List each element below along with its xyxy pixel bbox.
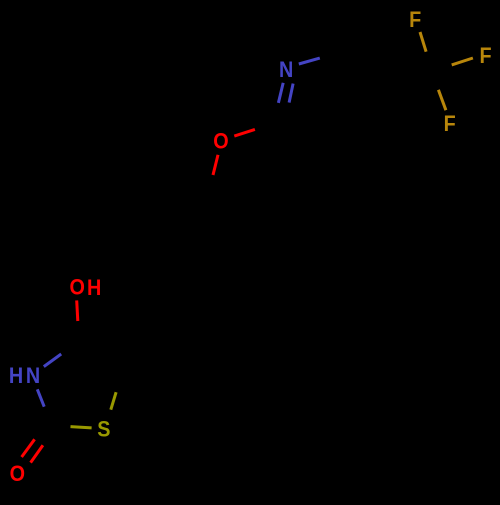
svg-text:F: F bbox=[479, 44, 491, 68]
wire: pyridine N1=C2 double bond inner line (N half, blue) bbox=[289, 84, 293, 103]
svg-text:F: F bbox=[444, 112, 456, 136]
wire: pyridine N1=C2 double bond main line (N half, blue) bbox=[278, 83, 283, 103]
svg-text:O: O bbox=[69, 275, 84, 299]
wire: ring N3-C4 bond (N half, blue) bbox=[44, 354, 61, 367]
svg-text:H: H bbox=[9, 364, 23, 388]
wire: C-F2 bond (F half, gold) bbox=[452, 58, 473, 65]
svg-text:N: N bbox=[279, 58, 293, 82]
wire: ether O to phenyl C1 bond (O half, red) bbox=[213, 155, 218, 175]
svg-text:N: N bbox=[26, 364, 40, 388]
wire: ring N3-C2 bond (N half, blue) bbox=[37, 389, 44, 406]
wire: C-F3 bond (F half, gold) bbox=[438, 90, 446, 110]
wire: hydroxyl O to thiazolidine C4 bond (O half, red) bbox=[77, 300, 78, 321]
wire: carbonyl C2=O double bond line b (O half, red) bbox=[31, 445, 43, 462]
wire: C-F1 bond (F half, gold) bbox=[420, 32, 426, 52]
svg-text:O: O bbox=[213, 130, 228, 154]
svg-text:O: O bbox=[10, 462, 25, 486]
wire: ring S1-C5 bond (S half, olive) bbox=[111, 392, 116, 410]
svg-text:F: F bbox=[409, 8, 421, 32]
wire: carbonyl C2=O double bond line a (O half, red) bbox=[22, 439, 35, 457]
wire: ring S1-C2 bond (S half, olive) bbox=[71, 427, 92, 428]
wire: ether O to pyridine C2 bond (O half, red) bbox=[234, 129, 255, 136]
wire: pyridine N1-C6 bond (N half, blue) bbox=[299, 58, 320, 64]
svg-text:H: H bbox=[87, 276, 101, 300]
svg-text:S: S bbox=[97, 418, 110, 442]
